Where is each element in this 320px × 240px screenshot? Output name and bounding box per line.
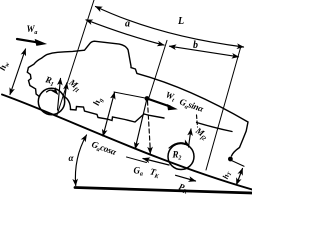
svg-text:R1: R1	[43, 74, 56, 88]
svg-text:b: b	[193, 40, 198, 51]
svg-text:hg: hg	[91, 96, 105, 107]
svg-text:Ga: Ga	[134, 166, 143, 178]
svg-text:Wt: Wt	[164, 89, 177, 104]
svg-text:a: a	[125, 19, 130, 30]
svg-text:Gasinα: Gasinα	[178, 96, 206, 116]
svg-text:hw: hw	[0, 59, 12, 72]
svg-text:L: L	[177, 16, 184, 27]
svg-text:Mf2: Mf2	[192, 125, 210, 143]
svg-text:TK: TK	[148, 166, 161, 180]
svg-text:Mf1: Mf1	[65, 77, 83, 95]
svg-text:Wa: Wa	[27, 24, 38, 36]
svg-text:α: α	[69, 153, 75, 163]
svg-text:PK: PK	[177, 181, 191, 195]
svg-text:hT: hT	[221, 169, 234, 180]
svg-text:Gacosα: Gacosα	[90, 139, 119, 159]
svg-text:R2: R2	[172, 150, 182, 162]
